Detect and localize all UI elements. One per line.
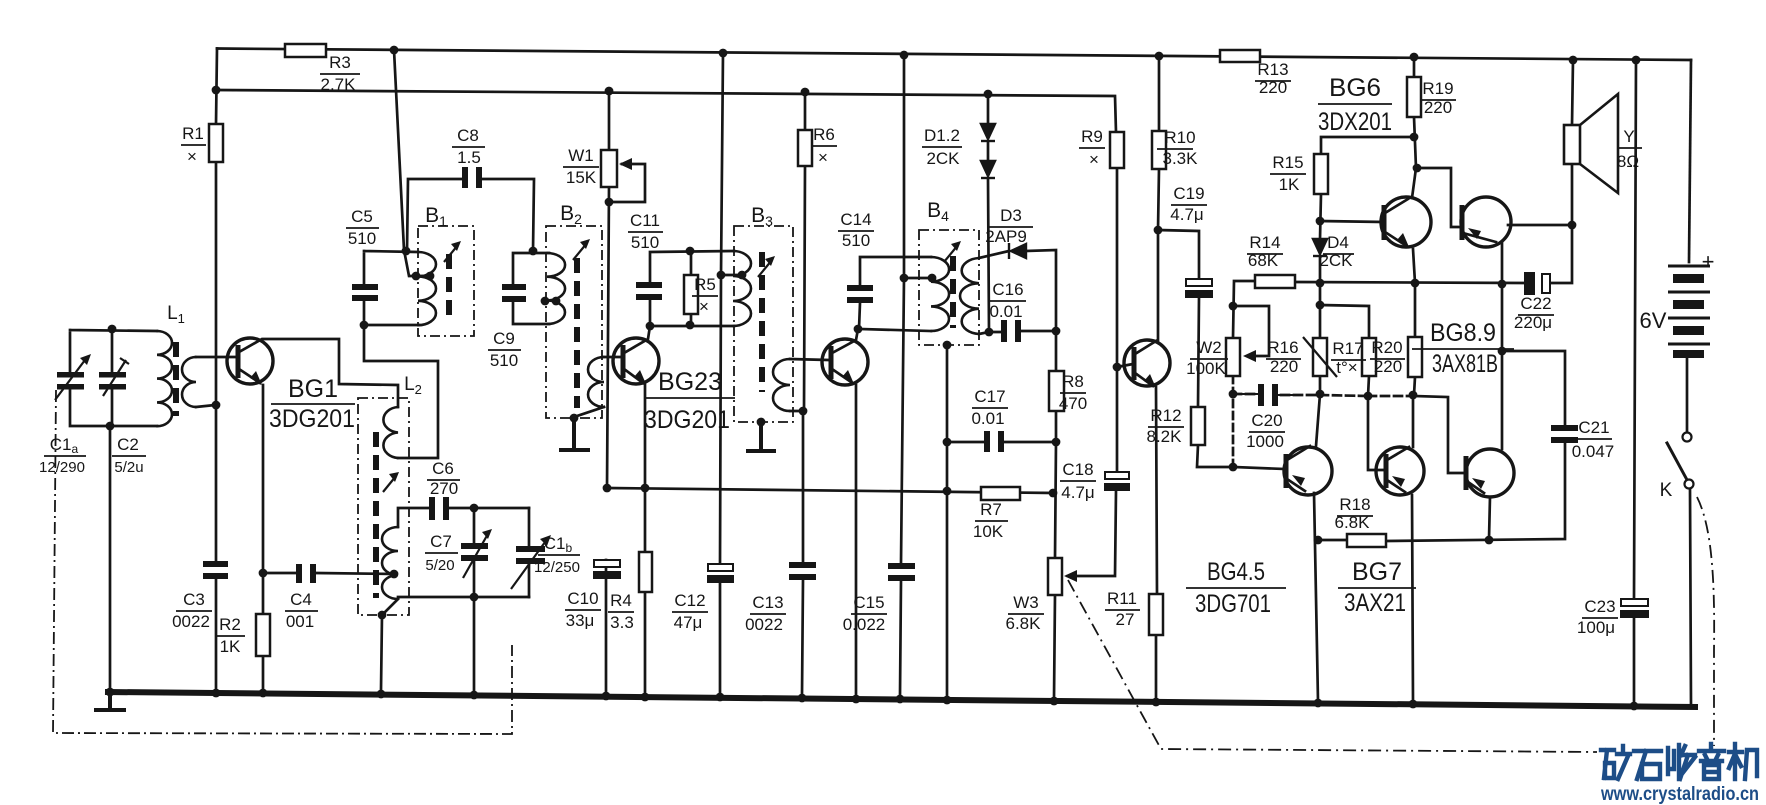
watermark char shi <box>1634 751 1661 779</box>
core L1 <box>173 342 179 416</box>
speaker Y frame <box>1564 125 1580 164</box>
svg-text:510: 510 <box>348 229 376 248</box>
svg-text:C13: C13 <box>752 593 783 612</box>
wire B4 secondary lower to C17 R7 <box>946 345 949 695</box>
node dots AGC line <box>603 484 612 493</box>
emitter arrow BG1 <box>250 371 262 385</box>
wire BG7 collector <box>1387 396 1413 460</box>
wire ground bus <box>108 692 1695 707</box>
core L2 <box>373 432 379 598</box>
wire B1 top / C5 risers <box>364 251 419 325</box>
svg-text:1.5: 1.5 <box>457 148 481 167</box>
wire L1 tank top <box>70 329 157 426</box>
core arrow tip L2 <box>389 472 399 482</box>
battery 6V cells <box>1668 265 1710 268</box>
svg-text:BG8.9: BG8.9 <box>1430 319 1496 347</box>
wire BG2 emitter through R4 <box>624 369 645 695</box>
base bar BG4 <box>1132 347 1137 380</box>
capacitor C11 plates <box>636 282 662 288</box>
svg-text:3AX81B: 3AX81B <box>1432 350 1498 378</box>
svg-text:K: K <box>1660 480 1673 501</box>
emitter arrow BG7 <box>1392 476 1405 487</box>
resistor R9 <box>1110 132 1124 168</box>
wire R5 risers <box>690 251 693 325</box>
wire W1 branch <box>607 91 645 488</box>
svg-text:D1.2: D1.2 <box>924 126 960 145</box>
diode D4 <box>1313 239 1327 254</box>
emitter arrow BG2 <box>634 370 646 384</box>
wire C14 risers and B4 top <box>859 257 931 331</box>
capacitor C8 plates <box>462 167 468 188</box>
core B4 <box>950 256 956 328</box>
svg-text:C16: C16 <box>992 280 1023 299</box>
node dots B2 taps <box>541 297 550 306</box>
svg-text:220μ: 220μ <box>1514 313 1552 332</box>
wire BG9 collector rail <box>1501 284 1504 449</box>
wire R20 leg <box>1414 283 1415 395</box>
potentiometer W1 <box>601 150 617 187</box>
core arrow shaft B4 <box>944 245 958 262</box>
svg-text:C3: C3 <box>183 590 205 609</box>
wire top supply bus <box>217 49 1691 61</box>
svg-text:3DX201: 3DX201 <box>1318 108 1392 136</box>
wire BG8 emitter <box>1463 233 1502 284</box>
svg-text:8Ω: 8Ω <box>1617 152 1639 171</box>
svg-text:6.8K: 6.8K <box>1006 614 1042 633</box>
resistor R15 <box>1314 154 1328 194</box>
trimmer slash C1b <box>511 538 548 589</box>
capacitor C9 plates <box>502 284 526 290</box>
base bar BG1 <box>236 345 241 378</box>
node dots top bus <box>390 46 399 55</box>
capacitor C2 plates <box>99 372 126 378</box>
svg-text:2CK: 2CK <box>926 149 960 168</box>
wire B+ feed to B1 tap <box>394 50 430 276</box>
wire R17 top link <box>1320 305 1369 396</box>
wire BG4 base <box>1117 364 1133 367</box>
capacitor C17 plates <box>984 431 990 452</box>
capacitor C12 electrolytic <box>708 564 733 571</box>
wire BG7 base from R17 <box>1368 396 1385 470</box>
coil B3 primary <box>733 251 751 326</box>
node dots C4 line <box>259 569 268 578</box>
svg-text:×: × <box>1089 150 1099 169</box>
wire speaker legs <box>1572 60 1573 225</box>
trimmer arrow C1a <box>80 354 91 365</box>
resistor R18 <box>1347 534 1386 547</box>
svg-text:×: × <box>818 148 828 167</box>
svg-text:3AX21: 3AX21 <box>1344 589 1406 617</box>
svg-text:R19: R19 <box>1422 79 1453 98</box>
wire BG1 collector to L2 <box>239 339 398 407</box>
node dot R10 C19 <box>1154 226 1163 235</box>
wire BG4 emitter through R11 <box>1135 373 1157 701</box>
wire B1 bottom to L2 upper winding <box>364 325 438 458</box>
wire L1 tank to ground <box>109 426 112 690</box>
base bar BG2 <box>621 345 626 378</box>
wire second supply bus <box>216 90 1116 132</box>
node dots audio stage <box>1229 302 1238 311</box>
node dots L1 tank <box>108 325 117 334</box>
svg-text:D3: D3 <box>1000 206 1022 225</box>
core arrow tip B2 <box>580 239 590 249</box>
wire C17 line <box>947 441 1056 444</box>
capacitor C4 plates <box>296 564 302 583</box>
transformer box B4 <box>919 230 979 345</box>
svg-text:R12: R12 <box>1150 406 1181 425</box>
core arrow shaft B3 <box>758 260 772 277</box>
capacitor C5 plates <box>352 284 378 290</box>
watermark char yin <box>1699 744 1724 779</box>
svg-text:C2: C2 <box>117 435 139 454</box>
svg-text:BG1: BG1 <box>288 375 338 403</box>
capacitor C16 plates <box>1001 320 1007 342</box>
wire battery to switch <box>1686 358 1689 432</box>
emitter arrow BG3 <box>842 370 854 384</box>
resistor R4 <box>639 552 652 592</box>
svg-text:R7: R7 <box>980 500 1002 519</box>
svg-text:C10: C10 <box>567 589 598 608</box>
transistor BG3 <box>822 339 868 385</box>
capacitor C1a plates <box>57 372 84 378</box>
svg-text:3DG201: 3DG201 <box>269 405 355 433</box>
core B2 <box>574 258 580 408</box>
svg-text:×: × <box>187 147 197 166</box>
svg-text:C14: C14 <box>840 210 871 229</box>
core B1 <box>446 254 452 318</box>
transistor BG9 <box>1466 449 1514 497</box>
svg-text:12/290: 12/290 <box>39 459 85 476</box>
resistor R14 <box>1255 275 1295 288</box>
svg-text:C9: C9 <box>493 329 515 348</box>
svg-text:15K: 15K <box>566 168 597 187</box>
wire B2 secondary bottom <box>574 407 604 417</box>
svg-text:C17: C17 <box>974 387 1005 406</box>
resistor R13 <box>1220 50 1260 62</box>
svg-text:0.022: 0.022 <box>843 615 886 634</box>
transistor BG7 <box>1376 447 1424 495</box>
svg-text:C11: C11 <box>630 211 660 230</box>
svg-text:C20: C20 <box>1251 411 1282 430</box>
svg-text:W2: W2 <box>1196 338 1222 357</box>
wire BG2 base <box>604 356 622 359</box>
wire AGC line with R7 <box>607 488 1053 493</box>
svg-text:47μ: 47μ <box>674 613 703 632</box>
core arrow tip B3 <box>765 256 775 266</box>
svg-text:0022: 0022 <box>745 615 783 634</box>
svg-text:W1: W1 <box>568 146 594 165</box>
svg-text:R13: R13 <box>1257 60 1288 79</box>
resistor R10 <box>1152 131 1166 169</box>
wire BG6 base <box>1320 221 1383 222</box>
ground symbol main <box>96 692 124 710</box>
transistor BG5 <box>1284 447 1332 495</box>
svg-text:BG23: BG23 <box>658 368 722 396</box>
svg-text:R10: R10 <box>1164 128 1195 147</box>
node dot W1 wiper <box>605 198 614 207</box>
wire C19 branch through R12 <box>1158 230 1233 467</box>
potentiometer W2 <box>1226 338 1240 376</box>
node dots oscillator tank <box>470 504 479 513</box>
coil B1 primary <box>418 252 436 325</box>
core arrow tip B4 <box>951 241 961 251</box>
resistor R1 <box>209 124 223 162</box>
coil B4 primary <box>931 257 949 331</box>
wire BG5 collector <box>1287 394 1320 460</box>
svg-text:33μ: 33μ <box>566 611 595 630</box>
svg-text:100μ: 100μ <box>1577 618 1615 637</box>
svg-text:3DG201: 3DG201 <box>644 406 730 434</box>
svg-text:C23: C23 <box>1584 597 1615 616</box>
wire B2 top and C9 risers <box>513 253 549 324</box>
wire BG4 collector through R10 <box>1135 56 1159 354</box>
base bar BG6 <box>1382 205 1387 240</box>
wire C20 stubs <box>1233 394 1300 395</box>
svg-text:R2: R2 <box>219 615 241 634</box>
wiper arrow W3 <box>1064 570 1077 582</box>
trimmer arrow C1b <box>540 535 551 546</box>
transistor BG1 <box>227 338 273 384</box>
svg-text:R6: R6 <box>813 125 835 144</box>
coil B4 secondary <box>960 258 979 334</box>
svg-text:×: × <box>699 297 709 316</box>
wire R6 branch with C13 <box>802 92 805 695</box>
resistor R3 <box>285 44 326 57</box>
capacitor C6 plates <box>429 497 435 520</box>
capacitor C15 plates <box>888 563 915 569</box>
core arrow shaft B2 <box>573 243 587 260</box>
coil L1 secondary <box>182 357 196 407</box>
emitter arrow BG9 <box>1472 478 1485 489</box>
svg-text:0.01: 0.01 <box>971 409 1004 428</box>
wire W3 leg <box>1054 442 1056 699</box>
transistor BG4 <box>1124 340 1170 386</box>
svg-text:6V: 6V <box>1640 308 1667 333</box>
capacitor C20 plates <box>1258 384 1264 406</box>
wire W3 wiper from C18 <box>1068 491 1116 576</box>
wire oscillator tank bottom <box>381 597 529 690</box>
node dots B4 detector <box>900 274 909 283</box>
svg-text:www.crystalradio.cn: www.crystalradio.cn <box>1600 784 1759 805</box>
svg-text:C19: C19 <box>1173 184 1204 203</box>
coil B2 primary <box>547 253 565 324</box>
resistor R5 <box>684 275 698 314</box>
svg-text:8.2K: 8.2K <box>1147 427 1183 446</box>
capacitor C21 plates <box>1551 425 1578 431</box>
svg-text:220: 220 <box>1259 78 1287 97</box>
svg-text:0.01: 0.01 <box>989 302 1022 321</box>
trimmer slash C1a <box>55 356 88 400</box>
core B3 <box>759 252 765 392</box>
node dot BG4 base <box>1113 363 1122 372</box>
trimmer arrow C7 <box>482 529 492 539</box>
capacitor C22 hollow plate <box>1542 274 1550 293</box>
speaker Y horn <box>1580 94 1618 193</box>
transistor BG8 <box>1461 197 1511 247</box>
wire C1b riser <box>528 508 531 597</box>
resistor R19 <box>1407 77 1421 117</box>
coil L1 primary <box>157 331 172 426</box>
capacitor C19 electrolytic <box>1186 279 1212 286</box>
wire D1.2 rail <box>988 94 989 332</box>
wire R20 to BG9 base <box>1413 396 1465 473</box>
svg-text:1K: 1K <box>220 637 241 656</box>
emitter arrow BG4 <box>1144 374 1156 388</box>
ground symbol B2 <box>561 418 588 450</box>
resistor R16 <box>1313 338 1327 376</box>
svg-text:2AP9: 2AP9 <box>985 227 1027 246</box>
svg-text:R15: R15 <box>1272 153 1303 172</box>
svg-text:2CK: 2CK <box>1319 251 1353 270</box>
trimmer slash C7 <box>463 532 489 578</box>
coil L2 lower <box>382 527 398 599</box>
emitter arrow BG6 <box>1397 233 1409 247</box>
transformer box B2 <box>546 226 602 418</box>
wire C7 riser <box>473 508 476 690</box>
core arrow tip B1 <box>451 241 461 251</box>
svg-text:C12: C12 <box>674 591 705 610</box>
svg-text:Y: Y <box>1623 127 1634 146</box>
svg-text:R8: R8 <box>1062 372 1084 391</box>
capacitor C23 electrolytic <box>1621 599 1648 606</box>
wire left rail through R1 <box>216 49 217 691</box>
resistor R12 <box>1191 407 1205 445</box>
node dots BG2 collector net <box>646 322 655 331</box>
dashed gang link W3 to switch <box>1068 580 1597 752</box>
switch K lever <box>1667 443 1686 478</box>
svg-text:t°×: t°× <box>1336 358 1357 377</box>
resistor R7 <box>981 487 1020 500</box>
wire C10 leg <box>605 560 608 695</box>
svg-text:C4: C4 <box>290 590 312 609</box>
svg-text:R11: R11 <box>1107 589 1137 608</box>
switch K contact circles <box>1683 433 1692 442</box>
wire C23 rail <box>1634 60 1636 705</box>
base bar BG5 <box>1284 454 1289 488</box>
wire C11 risers and B3 top <box>650 251 734 326</box>
node dot BG3 collector <box>854 325 863 334</box>
resistor R11 <box>1149 594 1163 635</box>
trimmer slash C2 <box>103 358 129 396</box>
emitter arrow BG5 <box>1292 475 1305 486</box>
svg-text:270: 270 <box>430 479 458 498</box>
resistor R2 <box>256 614 270 656</box>
svg-text:BG4.5: BG4.5 <box>1207 558 1265 586</box>
base bar BG3 <box>829 346 834 379</box>
svg-text:C15: C15 <box>853 593 884 612</box>
svg-text:100K: 100K <box>1186 359 1226 378</box>
wire battery top <box>1689 60 1691 262</box>
svg-text:3.3K: 3.3K <box>1163 149 1199 168</box>
svg-text:1K: 1K <box>1279 175 1300 194</box>
svg-text:BG7: BG7 <box>1352 558 1402 586</box>
diode D3 <box>1011 244 1026 258</box>
svg-text:68K: 68K <box>1248 251 1279 270</box>
svg-text:C5: C5 <box>351 207 373 226</box>
svg-text:W3: W3 <box>1013 593 1039 612</box>
capacitor C14 plates <box>847 285 873 291</box>
svg-text:2.7K: 2.7K <box>321 75 357 94</box>
node dots second bus <box>212 86 221 95</box>
svg-text:0.047: 0.047 <box>1572 442 1615 461</box>
svg-text:12/250: 12/250 <box>534 559 580 576</box>
wiper arrow W1 <box>619 158 632 170</box>
dashed gang link at switch K <box>1697 497 1714 746</box>
svg-text:R17: R17 <box>1332 339 1363 358</box>
svg-text:C21: C21 <box>1578 418 1609 437</box>
base bar BG8 <box>1460 205 1465 240</box>
base bar BG9 <box>1464 456 1469 490</box>
watermark char kuang <box>1601 746 1630 779</box>
svg-text:5/20: 5/20 <box>425 557 454 574</box>
svg-text:10K: 10K <box>973 522 1004 541</box>
preset slash R16 <box>1303 337 1337 377</box>
transformer box B1 <box>418 226 474 336</box>
svg-text:220: 220 <box>1374 357 1402 376</box>
wire BG3 emitter <box>832 369 856 695</box>
wire B3 secondary <box>790 359 829 411</box>
svg-text:510: 510 <box>842 231 870 250</box>
resistor R6 <box>798 130 812 166</box>
wire C22 to speaker node <box>1550 225 1572 283</box>
svg-text:510: 510 <box>631 233 659 252</box>
svg-text:C6: C6 <box>432 459 454 478</box>
resistor R17 <box>1362 338 1376 376</box>
resistor R20 <box>1408 337 1422 377</box>
capacitor C18 electrolytic <box>1105 472 1129 479</box>
wire BG2 collector <box>624 326 650 353</box>
svg-text:C18: C18 <box>1062 460 1093 479</box>
svg-text:R16: R16 <box>1267 338 1298 357</box>
wire BG6 collector <box>1385 168 1416 213</box>
svg-text:+: + <box>1702 249 1715 274</box>
svg-text:R14: R14 <box>1249 233 1280 252</box>
svg-text:5/2u: 5/2u <box>114 459 143 476</box>
wire R19 leg and BG8 base feed <box>1414 57 1461 227</box>
wire oscillator tank top with C6 <box>398 508 529 527</box>
dashed alignment box front-end <box>53 390 512 734</box>
node dots ground bus <box>106 688 115 697</box>
coil L2 upper <box>383 407 398 458</box>
transformer box B3 <box>734 226 793 422</box>
diode D2 <box>981 161 995 176</box>
watermark char ji <box>1729 744 1757 779</box>
transistor BG6 <box>1381 197 1431 247</box>
wire R9 C18 BG4 base rail <box>1116 168 1119 471</box>
svg-text:R4: R4 <box>610 591 632 610</box>
svg-text:R20: R20 <box>1371 338 1402 357</box>
wire R15 D4 R16 chain <box>1320 137 1414 394</box>
capacitor C22 solid plate <box>1524 272 1535 295</box>
core arrow shaft L2 <box>383 476 396 492</box>
wire C4 coupling <box>263 573 395 574</box>
wire dashed bias bus with C20 <box>1233 394 1413 396</box>
svg-text:R1: R1 <box>182 124 204 143</box>
core arrow shaft B1 <box>444 245 458 262</box>
wire W2 lower dashed link <box>1232 376 1235 467</box>
wire switch to ground <box>1690 490 1691 705</box>
capacitor C10 electrolytic <box>594 560 620 567</box>
node dots B3 <box>717 271 726 280</box>
svg-text:220: 220 <box>1270 357 1298 376</box>
wire W2 top loop <box>1233 281 1269 356</box>
svg-text:1000: 1000 <box>1246 432 1284 451</box>
svg-text:R9: R9 <box>1081 127 1103 146</box>
svg-text:0022: 0022 <box>172 612 210 631</box>
svg-text:C8: C8 <box>457 126 479 145</box>
coil B2 secondary <box>588 357 604 407</box>
svg-text:C22: C22 <box>1520 294 1551 313</box>
